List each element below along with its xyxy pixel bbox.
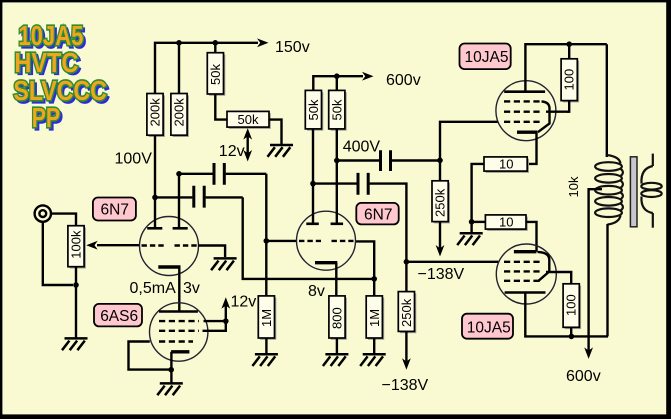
wire R15 to plate line (570, 327, 572, 336)
svg-text:800: 800 (330, 307, 345, 329)
resistor R15 100 (563, 284, 581, 329)
label V1 6N7 (93, 198, 136, 221)
svg-text:50k: 50k (306, 99, 321, 120)
svg-text:1M: 1M (259, 309, 274, 327)
V4 plate bar (504, 90, 545, 93)
V3 plate bar left (306, 223, 319, 226)
svg-text:150v: 150v (275, 39, 310, 56)
wire C1 to V3 grid / R7 (265, 174, 267, 296)
tube V5 10JA5: envelope (496, 244, 556, 304)
V5 plate lead down (525, 294, 608, 337)
label V3 6N7 (356, 203, 398, 225)
V5 grid2 dashes (504, 270, 542, 272)
svg-text:10k: 10k (566, 176, 581, 197)
wire 600v rail (313, 76, 363, 90)
V2 grid1 lead left loop to cathode (129, 342, 172, 370)
svg-text:600v: 600v (386, 72, 421, 89)
T1 secondary winding (641, 154, 661, 228)
ground R9 (373, 338, 375, 354)
svg-text:−138V: −138V (418, 266, 465, 283)
svg-text:400V: 400V (343, 139, 381, 156)
wire R3 to pot VR1 (215, 94, 227, 120)
capacitor C1 plates (upper coupling) (179, 173, 213, 175)
svg-text:6AS6: 6AS6 (100, 308, 138, 325)
V3 plate lead left (312, 181, 314, 223)
V5 cathode bar (514, 250, 537, 253)
wire 150v rail (155, 43, 258, 94)
V1 plate bar left (147, 227, 162, 230)
R10 arrow to -138V (439, 222, 441, 249)
ground V1 grid2 (211, 258, 237, 270)
resistor R11 250k (405, 262, 407, 292)
V3 cathode lead to R8 (335, 263, 337, 296)
wire R6 down to V3 plate (336, 129, 338, 161)
svg-text:SLVCCC: SLVCCC (13, 75, 107, 106)
svg-text:100: 100 (562, 69, 577, 91)
V4 grid1 dashes (504, 121, 542, 123)
resistor R3 50k (207, 53, 225, 96)
arrow to 150v (257, 38, 269, 47)
node dot V2 grids (223, 318, 229, 324)
label V4 10JA5 (460, 44, 511, 70)
resistor R9 1M (366, 296, 384, 340)
ground R8 (336, 338, 338, 354)
tube V3 6N7 second: envelope (297, 211, 356, 270)
V1 plate lead left (154, 135, 156, 227)
wire jack to R4 top (51, 214, 76, 226)
svg-text:200k: 200k (148, 98, 163, 127)
R11 arrow to -138V (405, 331, 407, 364)
svg-text:200k: 200k (172, 98, 187, 127)
V1 cathode bar (158, 265, 180, 268)
svg-text:100k: 100k (69, 230, 84, 259)
transformer T1 primary top lead (606, 44, 608, 157)
ground R12/R14 (457, 233, 483, 245)
resistor R6 50k (329, 90, 347, 130)
svg-text:3v: 3v (183, 280, 200, 297)
capacitor C3 400V (337, 159, 379, 161)
V4 plate lead (525, 44, 606, 90)
wire rail to R3 (214, 43, 216, 53)
V1 grid right to ground (198, 246, 225, 258)
wire grid line to V5 (406, 261, 498, 263)
V2 grid3 lead right (204, 320, 226, 322)
node dot C3/grid/R10 (437, 158, 443, 164)
VR1 wiper double arrow (243, 128, 252, 161)
resistor R10 250k (439, 160, 441, 181)
wire R5 down to V3 plate (312, 129, 314, 184)
wire R4 bottom to ground (75, 267, 77, 339)
arrow into R4 (grid wire) (97, 244, 140, 246)
svg-text:50k: 50k (208, 64, 223, 85)
V2 plate bar (159, 310, 198, 313)
svg-text:6N7: 6N7 (101, 202, 129, 219)
node dot rail-R3 (213, 40, 219, 46)
resistor R13 100 (568, 44, 570, 59)
12v arrow up (V2 grids) (225, 302, 227, 321)
V5 screen lead right (546, 272, 571, 284)
node dot jack/R4 (73, 282, 79, 288)
wire grid left V3 (266, 240, 297, 242)
V5 g3-cathode tie (538, 252, 550, 281)
V1 plate bar right (173, 227, 188, 230)
svg-text:50k: 50k (238, 112, 259, 127)
T1 primary winding (595, 155, 623, 225)
svg-text:PP: PP (32, 102, 60, 133)
V3 plate bar right (331, 223, 344, 226)
title text (13, 20, 109, 135)
svg-text:0,5mA: 0,5mA (130, 280, 177, 297)
wire rail to R6 (336, 76, 338, 90)
resistor R4 100k (68, 226, 86, 269)
V1 plate lead right (178, 174, 180, 227)
resistor R5 50k (305, 90, 323, 130)
V1 cathode lead down to V2 plate (178, 267, 180, 312)
V1 grid dashes (142, 244, 165, 246)
ground R7 (265, 338, 267, 354)
resistor R12 10 (484, 156, 529, 173)
V2 cathode lead down (170, 352, 172, 384)
border frame (0, 0, 671, 2)
V5 plate bar (505, 291, 546, 294)
svg-text:10: 10 (499, 156, 513, 171)
ground V2 cathode (157, 383, 183, 395)
resistor R7 1M (258, 296, 276, 340)
node dot C2-line/1M/grid (371, 276, 377, 282)
V4 cathode bar (517, 130, 537, 133)
capacitor C2 plates (lower coupling) (155, 196, 192, 198)
V2 grid3 dashes (159, 320, 199, 322)
tube V1 6N7 first half: envelope (140, 217, 199, 276)
wire rail to R2 (178, 43, 180, 94)
ground VR1 (268, 145, 294, 157)
wire R12 left to junction (472, 164, 484, 222)
V5 grid1 dashes (504, 261, 542, 263)
svg-text:−138V: −138V (382, 377, 429, 394)
svg-text:250k: 250k (433, 188, 448, 217)
node dot C1-R2 (176, 171, 182, 177)
wire jack sleeve down (43, 222, 73, 285)
node dot C4/R11/gridline (404, 259, 410, 265)
capacitor C4 (313, 182, 357, 184)
node dot V2 cathode/g1 (168, 367, 174, 373)
wire V3 right grid (355, 241, 374, 296)
node dot R12/R14/gnd (469, 219, 475, 225)
wire VR1 to ground (269, 120, 282, 145)
V3 plate lead right (336, 161, 338, 223)
svg-text:12v: 12v (231, 294, 257, 311)
V2 grid2 dashes (159, 330, 199, 332)
node dot C2-R1 (152, 195, 158, 201)
input jack J1 (35, 205, 51, 221)
svg-text:8v: 8v (308, 283, 325, 300)
svg-text:10: 10 (499, 214, 513, 229)
node dot rail-R6 (334, 73, 340, 79)
node dot B+ / R13 (566, 41, 572, 47)
svg-text:HVTC: HVTC (14, 47, 78, 78)
T1 primary bottom lead (606, 224, 608, 336)
tube V4 10JA5: envelope (496, 81, 556, 141)
resistor R1 200k (147, 94, 165, 138)
V5 grid3 dashes (504, 280, 542, 282)
node dot C1/grid/R7 (264, 238, 270, 244)
wire R13 to V4 screen (567, 101, 569, 112)
V3 cathode bar (315, 261, 337, 264)
wire R14 left to junction (472, 221, 486, 223)
resistor R2 200k (171, 94, 189, 138)
resistor R14 10 (485, 214, 527, 231)
svg-text:10JA5: 10JA5 (465, 49, 509, 66)
T1 center tap (589, 189, 602, 354)
V2 cathode bar (171, 350, 189, 353)
V2 grid2 lead right, up to g3 node (203, 321, 226, 331)
V3 grid dashes (299, 240, 321, 242)
wire C2 down and across to V3 right grid (243, 197, 375, 279)
svg-text:100: 100 (564, 294, 579, 316)
V4 g3-cathode tie (538, 101, 550, 132)
svg-text:50k: 50k (329, 99, 344, 120)
label V5 10JA5 (462, 314, 513, 339)
tube V2 6AS6: envelope (150, 303, 208, 361)
V4 screen lead right (546, 110, 569, 112)
node dot rail-R2 (176, 40, 182, 46)
svg-text:100V: 100V (115, 151, 153, 168)
node dot R5/C4 (310, 181, 316, 187)
arrow 600v down (584, 347, 593, 359)
ground input (62, 338, 88, 350)
T1 core (630, 157, 637, 227)
node dot plate/R15 (569, 334, 575, 340)
V2 grid1 dashes (159, 340, 193, 342)
wire C3 node up to V4 grid (440, 122, 498, 161)
V4 grid3 dashes (504, 100, 542, 102)
potentiometer VR1 50k (227, 111, 271, 128)
resistor R8 800 (329, 296, 347, 340)
svg-text:600v: 600v (566, 368, 601, 385)
arrow to 600v (362, 72, 374, 81)
wire junction to ground (470, 222, 472, 234)
svg-text:6N7: 6N7 (364, 207, 392, 224)
node dot R6/C3 (334, 158, 340, 164)
svg-text:1M: 1M (367, 309, 382, 327)
V4 cathode lead to R12 (527, 132, 536, 164)
V4 grid2 dashes (504, 110, 542, 112)
wire R14 right to V5 cathode (526, 222, 537, 252)
svg-text:12v: 12v (219, 143, 245, 160)
label V2 6AS6 (94, 304, 142, 327)
svg-text:10JA5: 10JA5 (467, 320, 511, 337)
svg-text:250k: 250k (399, 298, 414, 327)
